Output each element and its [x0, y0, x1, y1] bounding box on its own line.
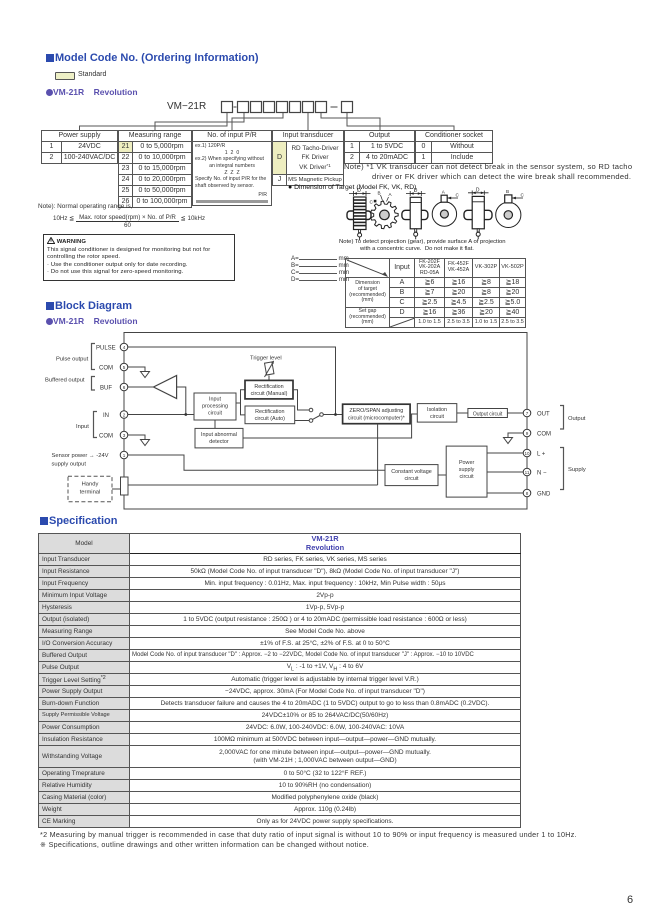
svg-text:Constant voltage: Constant voltage [391, 469, 431, 475]
svg-text:10: 10 [524, 451, 530, 456]
block diagram SVG [0, 328, 648, 518]
fig3 D dimension [406, 191, 426, 196]
svg-text:D: D [414, 188, 418, 194]
svg-text:Rectification: Rectification [254, 384, 283, 390]
fig3 sensor [415, 229, 417, 232]
svg-text:circuit (Auto): circuit (Auto) [255, 416, 285, 422]
switch contacts [309, 408, 313, 412]
wire IP to detector [214, 420, 216, 428]
fig6 disc front view [496, 202, 521, 227]
terminal 6 [120, 383, 128, 391]
wire BUF to amp [128, 386, 154, 388]
svg-text:B: B [506, 189, 509, 194]
op-amp buffer [154, 376, 177, 399]
terminal 10 [523, 449, 531, 457]
constant voltage circuit [385, 465, 438, 486]
svg-text:Isolation: Isolation [427, 407, 447, 413]
trigger VR symbol [265, 362, 274, 375]
handy terminal dashed box [68, 476, 112, 501]
fig1 D dimension [349, 191, 371, 196]
svg-text:C: C [521, 193, 525, 198]
wire auto to switch contact [295, 420, 310, 422]
svg-text:Handy: Handy [82, 482, 99, 488]
table 4: input transducer [272, 130, 344, 186]
table 3: No of input P/R [192, 130, 272, 206]
note to detect [339, 239, 629, 253]
handy link line [112, 488, 121, 490]
svg-text:COM: COM [99, 366, 113, 372]
fig1 gear side view: shaft [347, 211, 371, 220]
fig5 sensor [477, 229, 479, 232]
dimension of target bullet [288, 184, 416, 191]
ZERO/SPAN adjusting circuit [343, 404, 411, 424]
fig6 projection [505, 195, 512, 203]
fig5 cylinder side view: shaft [464, 210, 492, 219]
svg-text:circuit: circuit [460, 474, 475, 480]
svg-text:Input: Input [209, 397, 221, 403]
fig3 cylinder side view: shaft [402, 210, 428, 219]
svg-text:Sensor power → -24V: Sensor power → -24V [52, 453, 109, 459]
input processing circuit [194, 393, 236, 420]
terminal 4 [120, 343, 128, 351]
svg-text:3: 3 [123, 433, 126, 438]
table 2: measuring range [118, 130, 192, 208]
svg-text:9: 9 [526, 431, 529, 436]
wire COM9 ground [508, 433, 523, 437]
wire IN [128, 414, 194, 416]
rectification circuit (Auto) [245, 406, 295, 424]
svg-text:C: C [370, 200, 374, 205]
svg-text:circuit: circuit [404, 476, 419, 482]
power supply circuit [446, 446, 487, 497]
table 6: conditioner socket [415, 130, 493, 164]
isolation circuit [417, 404, 457, 423]
svg-text:Input abnormal: Input abnormal [201, 432, 237, 438]
svg-text:7: 7 [526, 411, 529, 416]
svg-text:L +: L + [537, 452, 546, 458]
svg-text:N −: N − [537, 471, 547, 477]
output circuit [468, 409, 508, 418]
svg-text:1: 1 [123, 453, 126, 458]
fig4 projection [441, 195, 447, 202]
terminal 5 [120, 363, 128, 371]
fig4 C arrow [447, 197, 458, 199]
terminal 8 [523, 489, 531, 497]
svg-text:6: 6 [123, 385, 126, 390]
svg-text:5: 5 [123, 365, 126, 370]
svg-text:11: 11 [525, 470, 530, 475]
wire PULSE to switch node [128, 347, 336, 415]
svg-text:circuit (Manual): circuit (Manual) [251, 391, 288, 397]
wire manual to switch contact [293, 390, 309, 410]
input abnormal detector [195, 428, 243, 448]
fig5 D dimension [468, 191, 489, 196]
gear figures SVG [335, 187, 535, 245]
fig2 gear front view [371, 201, 398, 229]
wire output circuit to OUT [507, 412, 523, 414]
footnotes [40, 830, 577, 851]
svg-text:processing: processing [202, 404, 228, 410]
rectification circuit (Manual) [245, 380, 293, 399]
handy connector [121, 477, 129, 495]
svg-text:GND: GND [537, 492, 551, 498]
svg-text:Buffered output: Buffered output [45, 378, 85, 384]
connector lines [80, 113, 455, 131]
svg-text:D: D [476, 187, 480, 193]
wires power supply to terminals [487, 452, 523, 454]
svg-text:Pulse output: Pulse output [56, 357, 89, 363]
wires IP to rectifiers [236, 390, 245, 403]
wire COM3 ground stub [128, 435, 145, 439]
note *1 [344, 162, 648, 182]
svg-text:detector: detector [209, 439, 229, 445]
svg-text:OUT: OUT [537, 412, 550, 418]
A= B= C= D= [291, 255, 349, 283]
svg-text:Power: Power [459, 460, 474, 466]
svg-text:8: 8 [526, 491, 529, 496]
svg-text:circuit: circuit [430, 414, 445, 420]
switch lever [313, 416, 320, 420]
terminal 1 [120, 451, 128, 459]
wire COM5 ground stub [128, 367, 145, 371]
fig1 gear body striped [354, 197, 367, 230]
fig6 C arrow [512, 197, 523, 199]
table 5: output [344, 130, 415, 164]
enclosure boundary [124, 333, 527, 510]
wire isolation to output circuit [457, 412, 468, 414]
svg-text:Rectification: Rectification [255, 409, 284, 415]
svg-text:terminal: terminal [80, 490, 101, 496]
terminal 11 [523, 468, 531, 476]
wire pole to ZERO/SPAN [323, 414, 342, 416]
wire constant to power supply [438, 474, 446, 476]
ground symbol COM5 [141, 372, 150, 378]
switch pole [320, 413, 324, 417]
table 1: power supply [41, 130, 118, 164]
svg-text:A: A [442, 190, 446, 195]
terminal 7 [523, 409, 531, 417]
terminal 2 [120, 411, 128, 419]
svg-text:COM: COM [537, 432, 551, 438]
junction dot pulse line [334, 413, 337, 416]
wire VR to manual rect [268, 376, 270, 381]
model code line [167, 101, 206, 112]
node junction dot [184, 413, 187, 416]
dimension table [345, 258, 526, 328]
svg-text:D: D [357, 188, 361, 194]
svg-text:Input: Input [76, 424, 89, 430]
svg-text:B: B [378, 191, 381, 196]
svg-text:Trigger level: Trigger level [250, 356, 282, 362]
svg-text:IN: IN [103, 413, 109, 419]
svg-text:A: A [389, 192, 393, 197]
svg-text:4: 4 [123, 345, 126, 350]
fig5 body [472, 196, 484, 228]
fig2 hub [380, 210, 390, 220]
fig1 sensor [359, 230, 361, 233]
page number [627, 894, 633, 906]
ground symbol COM3 [141, 440, 150, 446]
svg-text:supply output: supply output [52, 462, 87, 468]
wire ZS bottom down [377, 424, 379, 485]
wire amp to IN node [177, 387, 186, 415]
terminal 9 [523, 429, 531, 437]
svg-text:BUF: BUF [100, 386, 112, 392]
fig4 disc front view [432, 202, 456, 226]
wire sensor power [128, 455, 385, 470]
svg-text:2: 2 [123, 413, 126, 418]
svg-text:ZERO/SPAN adjusting: ZERO/SPAN adjusting [349, 408, 403, 414]
svg-text:circuit: circuit [208, 411, 223, 417]
svg-text:supply: supply [459, 467, 475, 473]
svg-text:COM: COM [99, 434, 113, 440]
wire detector to ZS-isolation wire [243, 414, 412, 438]
svg-text:PULSE: PULSE [96, 346, 116, 352]
wire ZS to isolation [410, 413, 417, 415]
terminal 3 [120, 431, 128, 439]
fig3 body [410, 197, 421, 229]
warning box [43, 234, 235, 281]
svg-text:C: C [456, 193, 460, 198]
standard legend [55, 72, 75, 80]
svg-text:circuit (microcomputer)*: circuit (microcomputer)* [348, 416, 406, 422]
wire handy terminal [128, 484, 378, 486]
right group labels [560, 406, 564, 430]
note normal operating [38, 203, 132, 210]
svg-text:Output: Output [568, 416, 586, 422]
svg-text:Supply: Supply [568, 467, 586, 473]
svg-text:Output circuit: Output circuit [473, 411, 503, 417]
